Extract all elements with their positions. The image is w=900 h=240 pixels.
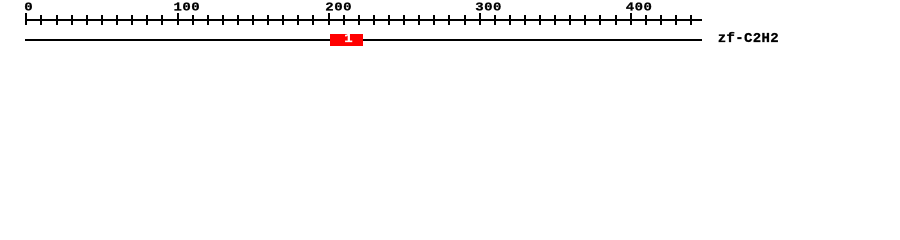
ruler minor tick 150 — [252, 15, 254, 25]
ruler minor tick 230 — [373, 15, 375, 25]
ruler minor tick 20 — [56, 15, 58, 25]
ruler minor tick 350 — [554, 15, 556, 25]
ruler baseline — [25, 19, 702, 21]
ruler minor tick 410 — [645, 15, 647, 25]
ruler major tick 0 — [25, 13, 27, 25]
ruler minor tick 110 — [192, 15, 194, 25]
ruler minor tick 330 — [524, 15, 526, 25]
ruler minor tick 250 — [403, 15, 405, 25]
domain name zf-C2H2 — [718, 32, 779, 46]
ruler minor tick 50 — [101, 15, 103, 25]
ruler number 0 — [24, 2, 33, 14]
ruler minor tick 190 — [312, 15, 314, 25]
ruler minor tick 170 — [282, 15, 284, 25]
ruler minor tick 380 — [599, 15, 601, 25]
ruler minor tick 120 — [207, 15, 209, 25]
ruler number 100 — [174, 2, 201, 14]
ruler major tick 200 — [328, 13, 330, 25]
domain number 1 — [344, 33, 352, 46]
ruler minor tick 430 — [675, 15, 677, 25]
ruler minor tick 420 — [660, 15, 662, 25]
ruler minor tick 90 — [161, 15, 163, 25]
ruler minor tick 270 — [433, 15, 435, 25]
ruler minor tick 160 — [267, 15, 269, 25]
ruler major tick 300 — [479, 13, 481, 25]
ruler number 400 — [626, 2, 653, 14]
ruler minor tick 440 — [690, 15, 692, 25]
domain box 1 (zf-C2H2, red) — [330, 34, 363, 46]
ruler major tick 100 — [177, 13, 179, 25]
ruler minor tick 240 — [388, 15, 390, 25]
ruler minor tick 210 — [343, 15, 345, 25]
ruler number 300 — [475, 2, 502, 14]
ruler minor tick 180 — [297, 15, 299, 25]
ruler minor tick 310 — [494, 15, 496, 25]
ruler minor tick 360 — [569, 15, 571, 25]
ruler minor tick 140 — [237, 15, 239, 25]
ruler major tick 400 — [630, 13, 632, 25]
ruler minor tick 260 — [418, 15, 420, 25]
ruler minor tick 390 — [615, 15, 617, 25]
ruler minor tick 30 — [71, 15, 73, 25]
ruler number 200 — [325, 2, 352, 14]
ruler minor tick 10 — [40, 15, 42, 25]
ruler minor tick 340 — [539, 15, 541, 25]
ruler minor tick 320 — [509, 15, 511, 25]
ruler minor tick 40 — [86, 15, 88, 25]
ruler minor tick 130 — [222, 15, 224, 25]
ruler minor tick 370 — [584, 15, 586, 25]
ruler minor tick 290 — [464, 15, 466, 25]
ruler minor tick 220 — [358, 15, 360, 25]
sequence line — [25, 39, 702, 41]
ruler minor tick 80 — [146, 15, 148, 25]
ruler minor tick 60 — [116, 15, 118, 25]
ruler minor tick 70 — [131, 15, 133, 25]
ruler minor tick 280 — [448, 15, 450, 25]
